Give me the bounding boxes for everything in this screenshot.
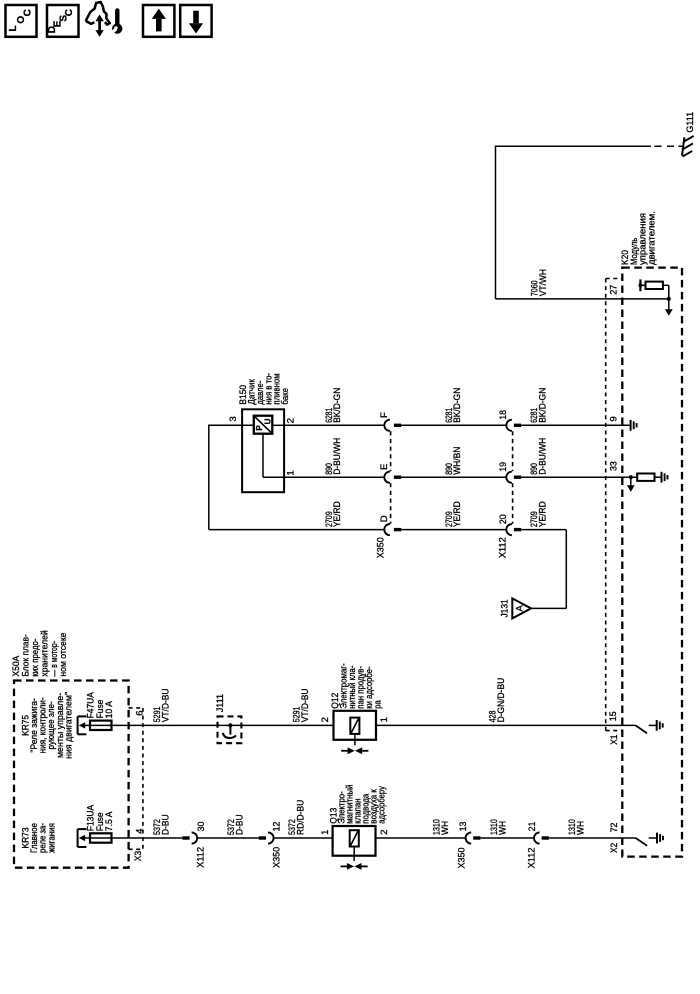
svg-text:18: 18 xyxy=(498,410,509,420)
svg-text:D-BU: D-BU xyxy=(235,814,246,835)
module K20 dashed box xyxy=(622,268,682,857)
label connector X350 at pin 12 xyxy=(271,847,282,868)
connector X1 dashed strip of K20 xyxy=(606,279,623,731)
label J131 xyxy=(500,599,511,617)
svg-text:A: A xyxy=(513,605,524,612)
wire dashed segment to G111 xyxy=(655,145,679,147)
wire 890 D-BU/WH segment X112 to K20 pin 33 xyxy=(521,476,637,478)
svg-text:19: 19 xyxy=(498,462,509,472)
svg-text:VT/D-BU: VT/D-BU xyxy=(300,688,311,722)
K20 internal arrow down at pin 33 xyxy=(627,477,635,492)
label 5291 VT/D-BU (segment 1) xyxy=(152,688,172,722)
svg-text:12: 12 xyxy=(271,822,282,832)
svg-text:J131: J131 xyxy=(500,599,511,617)
label connector X112 xyxy=(498,537,509,558)
wire 7060 VT/WH to ground G111 (solid segment) xyxy=(496,145,652,147)
svg-text:6: 6 xyxy=(134,711,145,716)
splice J131 triangle symbol xyxy=(512,598,531,618)
node junction at pin 27 net xyxy=(667,297,671,301)
wire 7060 VT/WH vertical segment xyxy=(495,146,497,299)
Q13 solenoid element xyxy=(350,830,359,846)
transducer symbol P/U inside B150 xyxy=(254,416,272,434)
svg-text:C: C xyxy=(23,9,34,16)
toolbar button page-up arrow xyxy=(143,5,174,37)
svg-text:G111: G111 xyxy=(685,112,696,133)
pin 13 label xyxy=(458,822,469,832)
svg-text:X112: X112 xyxy=(526,848,537,869)
label 6281 BK/D-GN (segment 2) xyxy=(444,388,463,423)
svg-text:X1: X1 xyxy=(609,735,620,745)
wire B150 pin 1 internal xyxy=(263,434,284,478)
svg-text:баке: баке xyxy=(280,388,291,405)
svg-text:YE/RD: YE/RD xyxy=(332,501,343,527)
pin D label xyxy=(379,515,390,522)
pin 4 label of X3 xyxy=(134,828,145,834)
svg-text:30: 30 xyxy=(196,822,207,832)
wire 5372 D-BU segment X112 to X350 xyxy=(197,837,259,839)
pin 3 label of B150 xyxy=(228,416,239,421)
svg-text:2: 2 xyxy=(379,830,390,835)
fuse block X50A dashed box xyxy=(14,681,129,868)
wire 890 WH/BN segment X350 to X112 xyxy=(399,476,506,478)
wire 7060 VT/WH horizontal to K20 pin 27 xyxy=(496,298,669,300)
K20 internal ground at pin 9 xyxy=(631,420,637,431)
label 1310 WH (segment 3) xyxy=(567,819,587,835)
svg-text:WH/BN: WH/BN xyxy=(452,447,463,475)
pin 21 label xyxy=(527,822,538,832)
svg-text:15: 15 xyxy=(608,711,619,721)
label 2709 YE/RD (segment 3) xyxy=(529,501,549,527)
pin 19 label xyxy=(498,462,509,472)
pin 1 label of B150 xyxy=(286,470,297,475)
pin 33 label xyxy=(608,461,619,471)
wire 2709 YE/RD vertical down to J131 level xyxy=(531,530,566,609)
wire 5291 VT/D-BU from fuse F47UA to Q12 xyxy=(112,724,334,726)
svg-text:4: 4 xyxy=(134,828,145,834)
pin 27 label xyxy=(608,285,619,295)
label X50A Блок плавких предохранителей - в моторном отсеке xyxy=(11,630,69,676)
connector X112 dashed link xyxy=(512,431,514,524)
sensor B150 box xyxy=(242,409,284,492)
wire B150 pin 2 segment inside box xyxy=(272,424,284,426)
svg-text:D-BU/WH: D-BU/WH xyxy=(332,438,343,475)
svg-text:BK/D-GN: BK/D-GN xyxy=(537,388,548,423)
wire B150 pin 3 segment xyxy=(209,424,254,426)
label connector X112 at pin 21 xyxy=(526,848,537,869)
svg-text:жигания: жигания xyxy=(46,823,57,853)
svg-text:BK/D-GN: BK/D-GN xyxy=(452,388,463,423)
svg-text:ния двигателем": ния двигателем" xyxy=(63,692,74,759)
svg-text:WH: WH xyxy=(440,821,451,835)
pin 30 label xyxy=(196,822,207,832)
label KR73 Главное реле зажигания xyxy=(21,823,58,853)
K20 internal resistor at pin 27 xyxy=(646,282,663,289)
svg-text:YE/RD: YE/RD xyxy=(452,501,463,527)
label 890 D-BU/WH (segment 3) xyxy=(529,438,549,475)
svg-text:J111: J111 xyxy=(215,694,226,712)
label 5372 D-BU (segment 2) xyxy=(226,814,246,835)
label connector X112 at pin 30 xyxy=(195,847,206,868)
pin 1 label of Q12 xyxy=(379,717,390,722)
wire from KR75 to fuse F47UA xyxy=(84,724,112,726)
connector X112 pin 30 xyxy=(182,832,197,843)
svg-text:WH: WH xyxy=(576,821,587,835)
svg-text:D-BU: D-BU xyxy=(160,814,171,835)
svg-text:27: 27 xyxy=(608,285,619,295)
K20 internal ground at pin 15 xyxy=(649,720,663,731)
svg-text:двигателем.: двигателем. xyxy=(646,211,657,265)
svg-text:1: 1 xyxy=(286,470,297,475)
svg-text:D: D xyxy=(379,515,390,522)
svg-text:X2: X2 xyxy=(609,843,620,853)
wire 428 D-GN/D-BU from Q12 to K20 pin 15 xyxy=(376,724,636,726)
pin 2 label of Q13 xyxy=(379,830,390,835)
svg-text:адсорберу: адсорберу xyxy=(377,786,388,824)
svg-text:L: L xyxy=(8,25,19,31)
wire 5372 D-BU from fuse F13UA to X112 xyxy=(112,837,183,839)
Q12 solenoid element xyxy=(350,718,359,734)
label 5372 RD/D-BU xyxy=(287,800,307,835)
svg-text:33: 33 xyxy=(608,461,619,471)
connector X112 pin 18 xyxy=(506,420,521,431)
svg-text:F: F xyxy=(379,412,390,418)
pin 1 label of Q13 xyxy=(320,830,331,835)
label F47UA Fuse 10 A xyxy=(86,692,115,719)
K20 internal ground at pin 33 xyxy=(655,472,668,483)
wire from KR73 to fuse F13UA xyxy=(84,837,112,839)
toolbar button DESC xyxy=(47,5,79,37)
svg-text:9: 9 xyxy=(608,416,619,421)
connector X112 pin 21 xyxy=(534,832,549,843)
toolbar button page-down arrow xyxy=(180,5,211,37)
connector X350 pin F xyxy=(384,420,401,431)
toolbar button LOC xyxy=(6,5,37,37)
label F13UA Fuse 7.5 A xyxy=(86,804,115,831)
svg-text:1: 1 xyxy=(320,830,331,835)
splice J111 dashed box xyxy=(218,716,242,743)
pin 12 label xyxy=(271,822,282,832)
Q12 valve symbol xyxy=(341,734,368,754)
pin 9 label xyxy=(608,416,619,421)
label J111 xyxy=(215,694,226,712)
label connector X1 xyxy=(609,735,620,745)
svg-text:2: 2 xyxy=(286,418,297,423)
pin 72 label xyxy=(609,823,620,833)
svg-text:13: 13 xyxy=(458,822,469,832)
svg-text:D-GN/D-BU: D-GN/D-BU xyxy=(496,678,507,723)
svg-text:X112: X112 xyxy=(498,537,509,558)
svg-text:E: E xyxy=(379,464,390,470)
svg-text:P: P xyxy=(255,425,264,431)
connector X112 pin 20 xyxy=(506,524,521,535)
svg-text:2: 2 xyxy=(320,717,331,722)
label 428 D-GN/D-BU xyxy=(488,678,508,723)
connector X350 pin 13 xyxy=(466,832,481,843)
label 7060 VT/WH xyxy=(530,269,549,296)
wire 1310 WH segment X112 to K20 pin 72 xyxy=(549,837,636,839)
svg-text:C: C xyxy=(64,9,75,16)
relay KR73 contact symbol xyxy=(78,829,87,847)
pin E label xyxy=(379,464,390,470)
svg-text:X350: X350 xyxy=(376,537,387,558)
fuse F13UA symbol xyxy=(90,833,112,842)
wire 2709 YE/RD segment X350 to X112 xyxy=(399,529,506,531)
pin 18 label xyxy=(498,410,509,420)
svg-text:X3: X3 xyxy=(133,851,144,861)
connector X350 dashed link xyxy=(390,431,392,524)
toolbar icon vehicle with arrows and wrench xyxy=(86,2,123,37)
label 6281 BK/D-GN (segment 3) xyxy=(529,388,549,423)
svg-text:VT/WH: VT/WH xyxy=(538,269,549,296)
label KR75 Реле зажигания xyxy=(20,692,74,759)
connector X3 dashed strip xyxy=(129,708,143,849)
pin F label xyxy=(379,412,390,418)
wire 890 D-BU/WH segment B150 to X350 xyxy=(284,476,384,478)
svg-text:D-BU/WH: D-BU/WH xyxy=(537,438,548,475)
label connector X350 at pin 13 xyxy=(456,848,467,869)
label 5372 D-BU (segment 1) xyxy=(152,814,172,835)
label Q12 Электромагнитный клапан продувки адсорбера xyxy=(330,663,384,709)
svg-text:RD/D-BU: RD/D-BU xyxy=(295,800,306,835)
pin 15 label xyxy=(608,711,619,721)
label Q13 Электромагнитный клапан подвода воздуха к адсорберу xyxy=(329,785,388,824)
connector X350 pin D xyxy=(384,524,401,535)
K20 internal switch at pin 15 xyxy=(636,725,648,733)
svg-text:21: 21 xyxy=(527,822,538,832)
label connector X350 xyxy=(376,537,387,558)
svg-text:X112: X112 xyxy=(195,847,206,868)
wire 1310 WH segment Q13 to X350 xyxy=(376,837,466,839)
svg-text:1: 1 xyxy=(379,717,390,722)
K20 internal supply bar and junction xyxy=(638,279,645,291)
label 1310 WH (segment 1) xyxy=(432,819,452,835)
label K20 Модуль управления двигателем xyxy=(620,211,657,265)
wire 2709 YE/RD left vertical detour xyxy=(209,425,384,530)
svg-text:ном отсеке: ном отсеке xyxy=(58,633,69,677)
svg-text:7.5 A: 7.5 A xyxy=(104,811,115,831)
solenoid valve Q13 box xyxy=(333,826,376,856)
svg-text:3: 3 xyxy=(228,416,239,421)
pin 2 label of B150 xyxy=(286,418,297,423)
svg-text:WH: WH xyxy=(498,821,509,835)
wire 6281 BK/D-GN segment X112 to K20 pin 9 xyxy=(521,424,629,426)
wire 2709 YE/RD segment X112 to corner xyxy=(521,529,566,531)
label 6281 BK/D-GN (segment 1) xyxy=(324,388,343,423)
label 2709 YE/RD (segment 2) xyxy=(444,501,463,527)
K20 internal wire from resistor to pin 27 node xyxy=(663,285,669,299)
svg-text:VT/D-BU: VT/D-BU xyxy=(160,688,171,722)
svg-text:72: 72 xyxy=(609,823,620,833)
connector X350 pin 12 xyxy=(259,832,274,843)
Q13 valve symbol xyxy=(341,847,368,870)
K20 internal switch at pin 72 xyxy=(636,838,648,846)
pin 6 label of X3 xyxy=(134,711,145,716)
svg-text:ра: ра xyxy=(372,700,383,709)
label B150 Датчик давления в топливном баке xyxy=(238,373,291,405)
svg-text:10 A: 10 A xyxy=(104,700,115,718)
svg-text:BK/D-GN: BK/D-GN xyxy=(332,388,343,423)
label 5291 VT/D-BU (segment 2) xyxy=(291,688,311,722)
K20 internal ground at pin 72 xyxy=(649,833,663,844)
svg-text:U: U xyxy=(263,418,272,424)
label 890 D-BU/WH (segment 1) xyxy=(324,438,343,475)
svg-text:20: 20 xyxy=(498,514,509,524)
relay KR75 contact symbol xyxy=(78,716,87,734)
ground G111 chassis-ground symbol xyxy=(679,136,694,157)
fuse F47UA symbol xyxy=(90,721,112,730)
splice J111 symbol xyxy=(223,723,236,738)
pin 20 label xyxy=(498,514,509,524)
wire 5372 RD/D-BU segment X350 to Q13 xyxy=(274,837,333,839)
solenoid valve Q12 box xyxy=(334,711,377,740)
pin 2 label of Q12 xyxy=(320,717,331,722)
label G111 xyxy=(685,112,696,133)
wire 6281 BK/D-GN segment X350 to X112 xyxy=(399,424,506,426)
svg-text:X350: X350 xyxy=(271,847,282,868)
svg-text:YE/RD: YE/RD xyxy=(537,501,548,527)
label 890 WH/BN (segment 2) xyxy=(444,447,463,475)
K20 internal resistor at pin 33 xyxy=(637,474,654,481)
label 1310 WH (segment 2) xyxy=(489,819,509,835)
K20 internal arrow down from pin 27 net xyxy=(665,299,673,316)
wire 1310 WH segment X350 to X112 xyxy=(481,837,534,839)
svg-text:X350: X350 xyxy=(456,848,467,869)
label 2709 YE/RD (segment 1) xyxy=(324,501,343,527)
connector X350 pin E xyxy=(384,472,401,483)
connector X112 pin 19 xyxy=(506,472,521,483)
node junction at pin 33 net xyxy=(629,475,633,479)
wire 6281 BK/D-GN segment B150 to X350 xyxy=(284,424,384,426)
label connector X3 xyxy=(133,851,144,861)
label connector X2 xyxy=(609,843,620,853)
